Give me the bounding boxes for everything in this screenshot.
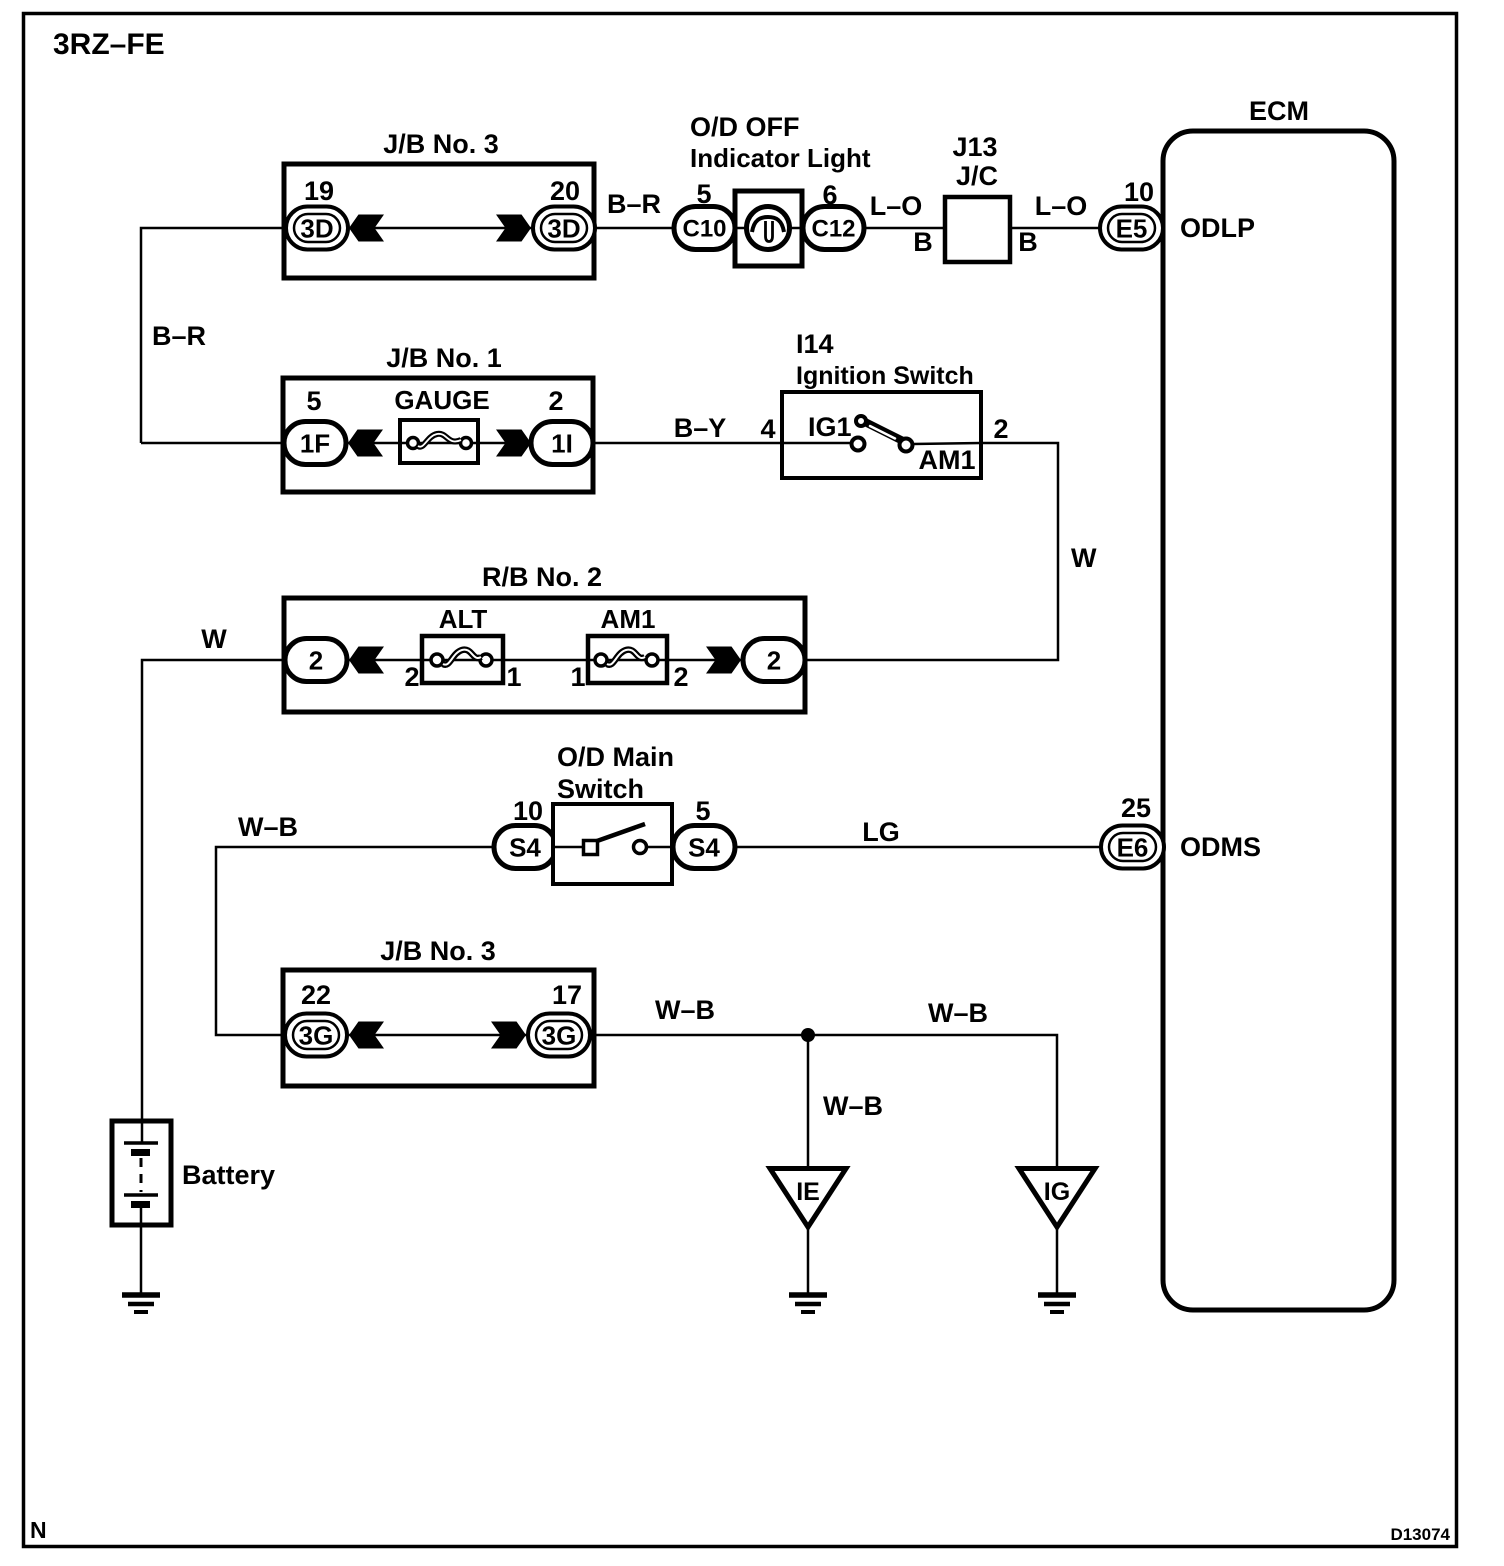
junction block J/B No.3 (bottom) [283, 936, 594, 1086]
O/D Main Switch label [557, 742, 674, 804]
wire W from R/B No.2 to left corner and down to battery [142, 660, 285, 1143]
relay block R/B No.2 [284, 562, 805, 712]
svg-text:17: 17 [552, 980, 582, 1010]
wire W from ignition switch down to R/B No.2 [805, 443, 1058, 660]
connector 2 (R/B left) [285, 639, 347, 682]
svg-text:3G: 3G [299, 1021, 334, 1051]
wire row1 from 3D 20 to C10, bulb, C12, J13 [594, 227, 945, 230]
arrow right (R/B No.2) [706, 647, 741, 674]
svg-text:E5: E5 [1116, 214, 1148, 244]
wire W-B from O/D main switch to left corner down to J/B No.3 [216, 847, 494, 1035]
arrow left (J/B No.3 bottom) [349, 1022, 384, 1049]
O/D main switch [553, 804, 672, 884]
svg-text:2: 2 [548, 386, 563, 416]
connector 2 (R/B right) [743, 639, 805, 682]
wire L-O from J13 to E5 [1010, 227, 1101, 230]
ground connector IG [1019, 1169, 1095, 1228]
svg-text:22: 22 [301, 980, 331, 1010]
svg-text:W–B: W–B [928, 998, 988, 1028]
svg-text:ECM: ECM [1249, 96, 1309, 126]
svg-text:O/D OFF: O/D OFF [690, 112, 800, 142]
svg-text:1: 1 [506, 662, 521, 692]
svg-text:IG1: IG1 [808, 412, 852, 442]
ground (IE) [789, 1295, 827, 1312]
svg-text:S4: S4 [509, 833, 541, 863]
svg-text:20: 20 [550, 176, 580, 206]
svg-text:E6: E6 [1117, 833, 1149, 863]
svg-text:2: 2 [309, 646, 323, 676]
svg-text:Ignition Switch: Ignition Switch [796, 362, 974, 390]
wire LG from O/D main switch to E6 [735, 846, 1101, 849]
connector S4 (right) [673, 826, 735, 869]
svg-text:L–O: L–O [870, 191, 923, 221]
svg-text:C10: C10 [682, 216, 726, 243]
svg-text:L–O: L–O [1035, 191, 1088, 221]
svg-text:3G: 3G [542, 1021, 577, 1051]
connector 19 3D [286, 207, 348, 250]
ground connector IE [770, 1169, 846, 1228]
svg-text:IG: IG [1044, 1178, 1070, 1206]
svg-text:2: 2 [767, 646, 781, 676]
svg-text:B–Y: B–Y [674, 413, 727, 443]
svg-text:2: 2 [673, 662, 688, 692]
svg-text:D13074: D13074 [1390, 1525, 1450, 1544]
connector 1I [531, 422, 593, 465]
svg-text:1F: 1F [300, 429, 330, 459]
connector S4 (left) [494, 826, 556, 869]
connector C12 [803, 207, 864, 250]
connector E5 [1100, 207, 1163, 250]
svg-text:GAUGE: GAUGE [394, 385, 489, 415]
svg-text:W–B: W–B [823, 1091, 883, 1121]
svg-text:W–B: W–B [238, 812, 298, 842]
svg-text:Switch: Switch [557, 774, 644, 804]
junction [801, 1028, 815, 1042]
svg-text:5: 5 [306, 386, 321, 416]
connector 22 3G [285, 1014, 347, 1057]
svg-text:W: W [201, 624, 227, 654]
svg-text:10: 10 [513, 796, 543, 826]
svg-text:ODMS: ODMS [1180, 832, 1261, 862]
svg-text:B–R: B–R [152, 321, 206, 351]
ECM block [1163, 96, 1394, 1310]
ignition switch I14 [782, 329, 981, 478]
svg-text:1I: 1I [551, 429, 573, 459]
fuse AM1 [588, 604, 667, 683]
svg-text:3D: 3D [547, 214, 580, 244]
wire B-R from J/B No.3 pin 19 to left corner and down [141, 228, 286, 443]
svg-text:4: 4 [760, 414, 775, 444]
svg-text:O/D Main: O/D Main [557, 742, 674, 772]
svg-text:C12: C12 [811, 216, 855, 243]
indicator light bulb [735, 191, 802, 266]
svg-text:J/B No. 3: J/B No. 3 [383, 129, 499, 159]
svg-text:B–R: B–R [607, 189, 661, 219]
svg-text:IE: IE [796, 1178, 820, 1206]
svg-text:S4: S4 [688, 833, 720, 863]
svg-text:1: 1 [570, 662, 585, 692]
wire row2 from corner to ignition switch [141, 442, 782, 445]
svg-text:Battery: Battery [182, 1160, 275, 1190]
connector C10 [674, 207, 735, 250]
fuse GAUGE [394, 385, 489, 463]
svg-text:AM1: AM1 [918, 445, 975, 475]
svg-text:I14: I14 [796, 329, 834, 359]
junction connector J13 J/C [945, 132, 1010, 262]
ground (battery) [122, 1295, 160, 1312]
svg-text:W: W [1071, 543, 1097, 573]
svg-text:AM1: AM1 [601, 604, 656, 634]
connector 17 3G [528, 1014, 590, 1057]
svg-text:5: 5 [695, 796, 710, 826]
wire battery to ground [140, 1208, 143, 1295]
arrow left (J/B No.1) [348, 430, 383, 457]
svg-text:J/B No. 3: J/B No. 3 [380, 936, 496, 966]
svg-text:19: 19 [304, 176, 334, 206]
arrow right (J/B No.3 bottom) [491, 1022, 526, 1049]
svg-text:R/B No. 2: R/B No. 2 [482, 562, 602, 592]
connector 20 3D [533, 207, 595, 250]
battery [112, 1121, 275, 1225]
svg-text:W–B: W–B [655, 995, 715, 1025]
fuse ALT [422, 604, 503, 683]
svg-text:Indicator Light: Indicator Light [690, 143, 871, 173]
svg-text:2: 2 [993, 414, 1008, 444]
svg-text:3RZ–FE: 3RZ–FE [53, 28, 165, 61]
svg-text:10: 10 [1124, 177, 1154, 207]
svg-text:B: B [1018, 227, 1038, 257]
svg-text:J/B No. 1: J/B No. 1 [386, 343, 502, 373]
wire W-B from J/B No.3 to IG corner [590, 1035, 1057, 1171]
svg-text:J/C: J/C [956, 161, 998, 191]
connector 1F [284, 422, 346, 465]
wire IG to ground [1056, 1227, 1059, 1295]
svg-text:J13: J13 [952, 132, 997, 162]
svg-text:LG: LG [862, 817, 900, 847]
wire W-B junction down to IE [807, 1035, 810, 1171]
connector E6 [1101, 826, 1164, 869]
svg-text:B: B [913, 227, 933, 257]
svg-text:25: 25 [1121, 793, 1151, 823]
arrow left (J/B No.3 top) [349, 215, 384, 242]
O/D OFF Indicator Light label [690, 112, 871, 173]
svg-text:ALT: ALT [439, 604, 488, 634]
junction block J/B No.3 (top) [284, 129, 594, 278]
svg-text:2: 2 [404, 662, 419, 692]
arrow right (J/B No.3 top) [496, 215, 531, 242]
svg-text:N: N [30, 1517, 47, 1543]
ground (IG) [1038, 1295, 1076, 1312]
arrow left (R/B No.2) [349, 647, 384, 674]
wire IE to ground [807, 1227, 810, 1295]
svg-text:ODLP: ODLP [1180, 213, 1255, 243]
svg-text:3D: 3D [300, 214, 333, 244]
junction block J/B No.1 [283, 343, 593, 492]
arrow right (J/B No.1) [496, 430, 531, 457]
